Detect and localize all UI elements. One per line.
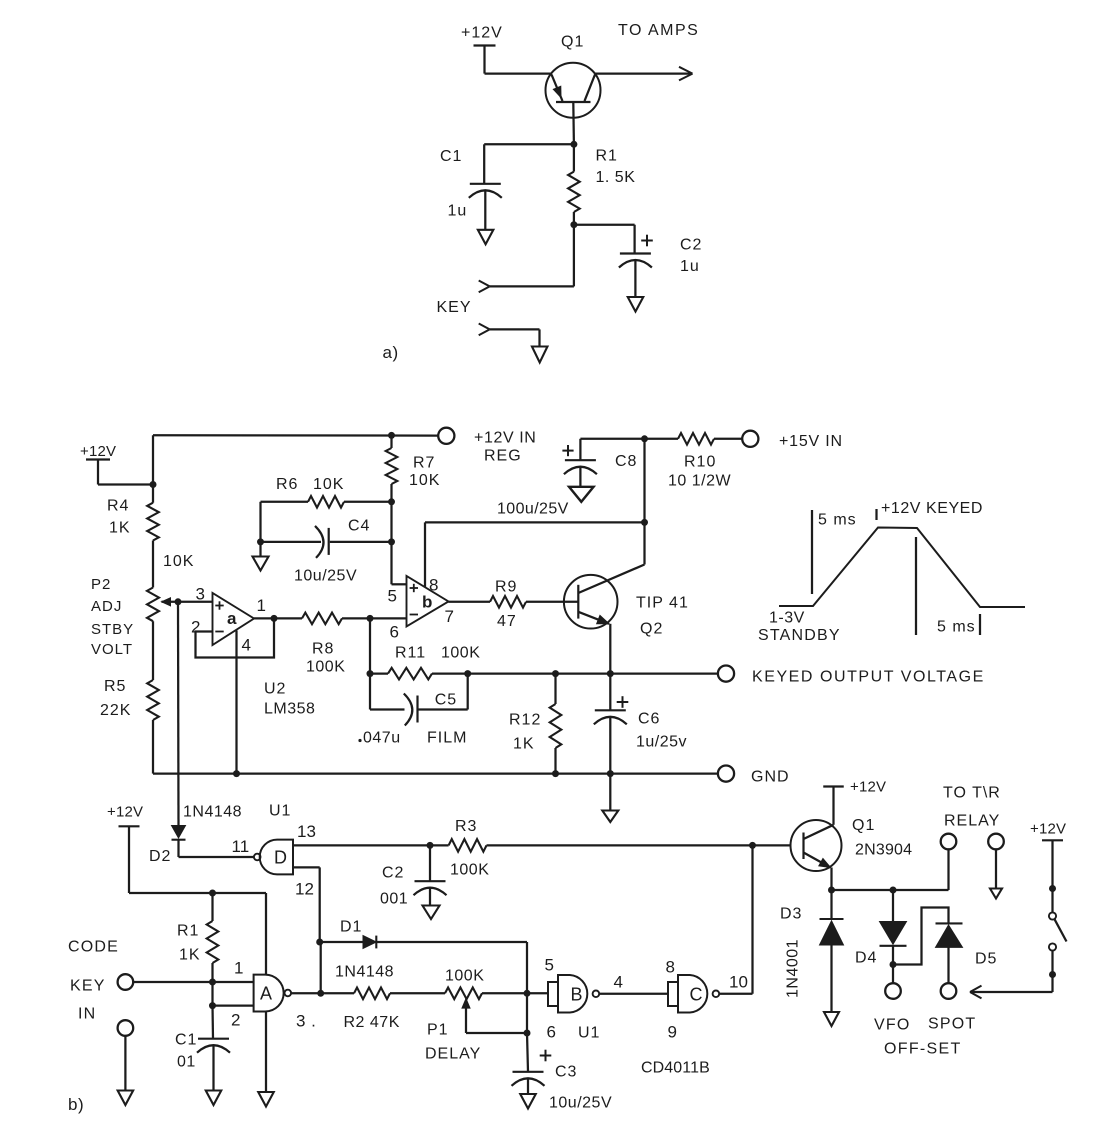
svg-text:8: 8	[666, 958, 675, 977]
svg-text:100K: 100K	[445, 968, 484, 985]
svg-text:C8: C8	[615, 453, 637, 470]
svg-text:SPOT: SPOT	[928, 1016, 976, 1033]
svg-text:KEY: KEY	[70, 978, 106, 995]
svg-text:TIP 41: TIP 41	[636, 595, 689, 612]
svg-text:4: 4	[242, 636, 251, 655]
svg-text:2: 2	[191, 618, 200, 637]
svg-text:47: 47	[497, 613, 517, 630]
svg-text:C1: C1	[175, 1032, 197, 1049]
svg-text:100K: 100K	[450, 862, 489, 879]
svg-text:1-3V: 1-3V	[769, 610, 805, 627]
svg-text:GND: GND	[751, 769, 790, 786]
svg-text:P2: P2	[91, 576, 111, 593]
svg-text:10 1/2W: 10 1/2W	[668, 473, 731, 490]
svg-text:2: 2	[231, 1011, 240, 1030]
svg-text:a): a)	[383, 343, 399, 362]
svg-text:R9: R9	[495, 579, 517, 596]
svg-text:D4: D4	[855, 950, 877, 967]
svg-text:RELAY: RELAY	[944, 813, 1000, 830]
svg-text:R5: R5	[104, 678, 126, 695]
svg-text:+12V: +12V	[461, 25, 503, 42]
svg-text:R6: R6	[276, 476, 298, 493]
svg-text:IN: IN	[78, 1006, 96, 1023]
svg-text:+12V: +12V	[80, 443, 116, 460]
svg-text:D2: D2	[149, 848, 171, 865]
svg-text:5 ms: 5 ms	[818, 512, 857, 529]
svg-text:5: 5	[388, 587, 397, 606]
svg-text:12: 12	[295, 880, 314, 899]
svg-text:3: 3	[196, 585, 205, 604]
svg-text:1u/25v: 1u/25v	[636, 734, 687, 751]
svg-text:100u/25V: 100u/25V	[497, 501, 569, 518]
svg-text:b): b)	[68, 1095, 84, 1114]
svg-text:D: D	[274, 848, 287, 868]
svg-text:LM358: LM358	[264, 701, 315, 718]
svg-text:8: 8	[429, 576, 438, 595]
svg-text:U1: U1	[269, 803, 291, 820]
svg-text:C2: C2	[382, 865, 404, 882]
svg-text:1K: 1K	[513, 736, 535, 753]
svg-text:11: 11	[232, 837, 250, 856]
svg-text:+12V: +12V	[107, 804, 143, 821]
svg-text:1N4001: 1N4001	[785, 939, 802, 998]
svg-text:R7: R7	[413, 455, 435, 472]
svg-text:R10: R10	[684, 454, 716, 471]
svg-text:+12V KEYED: +12V KEYED	[881, 500, 983, 517]
svg-text:C: C	[690, 985, 703, 1005]
svg-text:10u/25V: 10u/25V	[549, 1095, 612, 1112]
svg-text:R12: R12	[509, 712, 541, 729]
svg-text:REG: REG	[484, 448, 522, 465]
svg-text:R2 47K: R2 47K	[344, 1014, 400, 1031]
svg-text:D1: D1	[340, 919, 362, 936]
svg-text:VFO: VFO	[874, 1017, 911, 1034]
svg-text:P1: P1	[427, 1022, 449, 1039]
svg-text:D3: D3	[780, 906, 802, 923]
svg-text:C1: C1	[440, 148, 462, 165]
svg-text:13: 13	[297, 822, 316, 841]
svg-text:VOLT: VOLT	[91, 641, 133, 658]
svg-text:Q1: Q1	[852, 817, 875, 834]
svg-text:1K: 1K	[109, 520, 131, 537]
svg-text:+15V IN: +15V IN	[779, 433, 843, 450]
svg-text:TO T\R: TO T\R	[943, 785, 1001, 802]
svg-text:047u: 047u	[363, 730, 401, 747]
svg-text:CD4011B: CD4011B	[641, 1060, 710, 1077]
svg-text:3 .: 3 .	[296, 1012, 316, 1031]
svg-text:1N4148: 1N4148	[183, 804, 242, 821]
svg-text:FILM: FILM	[427, 730, 467, 747]
svg-text:a: a	[227, 609, 237, 628]
svg-text:+12V IN: +12V IN	[474, 430, 536, 447]
svg-text:01: 01	[177, 1054, 196, 1071]
svg-text:ADJ: ADJ	[91, 598, 122, 615]
svg-text:100K: 100K	[441, 645, 480, 662]
svg-text:1: 1	[257, 596, 266, 615]
svg-text:STBY: STBY	[91, 621, 134, 638]
svg-text:C5: C5	[435, 692, 457, 709]
svg-text:KEY: KEY	[437, 299, 472, 316]
svg-text:1. 5K: 1. 5K	[596, 169, 636, 186]
svg-text:6: 6	[390, 623, 399, 642]
svg-text:4: 4	[614, 973, 623, 992]
svg-text:10: 10	[729, 973, 748, 992]
svg-text:10u/25V: 10u/25V	[294, 568, 357, 585]
svg-text:U2: U2	[264, 681, 286, 698]
svg-text:TO AMPS: TO AMPS	[618, 22, 699, 39]
svg-text:D5: D5	[975, 951, 997, 968]
svg-text:+12V: +12V	[1030, 821, 1066, 838]
svg-text:R1: R1	[596, 148, 618, 165]
svg-text:R1: R1	[177, 923, 199, 940]
svg-text:5 ms: 5 ms	[937, 619, 976, 636]
svg-text:001: 001	[380, 891, 408, 908]
svg-text:CODE: CODE	[68, 939, 119, 956]
svg-text:100K: 100K	[306, 659, 345, 676]
svg-text:+12V: +12V	[850, 779, 886, 796]
svg-text:C2: C2	[680, 237, 702, 254]
svg-text:R8: R8	[312, 641, 334, 658]
svg-text:R3: R3	[455, 818, 477, 835]
svg-text:Q2: Q2	[640, 621, 663, 638]
svg-text:10K: 10K	[163, 553, 194, 570]
svg-text:10K: 10K	[313, 476, 344, 493]
svg-text:1u: 1u	[680, 258, 700, 275]
svg-text:U1: U1	[578, 1025, 600, 1042]
svg-text:9: 9	[668, 1023, 677, 1042]
svg-text:1K: 1K	[179, 947, 201, 964]
svg-text:10K: 10K	[409, 472, 440, 489]
svg-text:STANDBY: STANDBY	[758, 627, 841, 644]
svg-text:B: B	[571, 985, 583, 1005]
svg-text:22K: 22K	[100, 702, 131, 719]
svg-text:DELAY: DELAY	[425, 1046, 481, 1063]
svg-text:R4: R4	[107, 498, 129, 515]
svg-text:1u: 1u	[448, 203, 468, 220]
svg-text:C4: C4	[348, 518, 370, 535]
svg-text:5: 5	[545, 956, 554, 975]
svg-text:C3: C3	[555, 1064, 577, 1081]
svg-text:OFF-SET: OFF-SET	[884, 1041, 962, 1058]
svg-text:Q1: Q1	[561, 34, 584, 51]
svg-text:7: 7	[445, 607, 454, 626]
svg-text:KEYED OUTPUT VOLTAGE: KEYED OUTPUT VOLTAGE	[752, 669, 985, 686]
svg-text:b: b	[422, 593, 432, 612]
svg-text:A: A	[260, 984, 272, 1004]
svg-text:R11: R11	[395, 645, 426, 662]
svg-text:C6: C6	[638, 711, 660, 728]
svg-text:2N3904: 2N3904	[855, 842, 912, 859]
svg-text:1: 1	[234, 959, 243, 978]
svg-text:1N4148: 1N4148	[335, 964, 394, 981]
svg-text:6: 6	[547, 1023, 556, 1042]
